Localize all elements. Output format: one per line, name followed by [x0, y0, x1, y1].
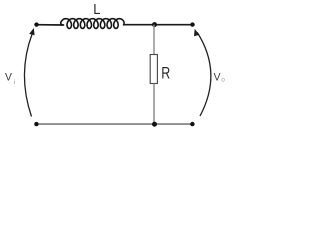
arrow Vo arc — [194, 29, 211, 116]
svg-text:V: V — [214, 71, 222, 83]
label L — [93, 1, 100, 18]
label Vi — [5, 71, 15, 86]
node output terminal dot — [190, 22, 194, 26]
wire top-right horizontal — [123, 24, 192, 26]
wire resistor top stub — [153, 25, 155, 55]
node input terminal dot — [34, 22, 38, 26]
node bottom-left terminal dot — [34, 122, 38, 126]
wire resistor bottom stub — [153, 84, 155, 125]
node bottom-right terminal dot — [190, 122, 194, 126]
arrow Vi arc — [24, 28, 34, 117]
svg-text:L: L — [93, 1, 100, 18]
svg-text:i: i — [14, 79, 15, 86]
label R — [161, 65, 170, 83]
resistor R1 body — [150, 55, 157, 84]
svg-text:R: R — [161, 65, 170, 83]
inductor L1 coil — [61, 19, 124, 29]
wire top-left horizontal — [37, 24, 64, 26]
node top junction dot — [152, 22, 157, 27]
wire bottom horizontal — [37, 123, 193, 125]
label Vo — [214, 71, 226, 83]
svg-text:V: V — [5, 71, 13, 83]
svg-text:o: o — [221, 77, 225, 84]
node bottom junction dot — [152, 122, 157, 127]
